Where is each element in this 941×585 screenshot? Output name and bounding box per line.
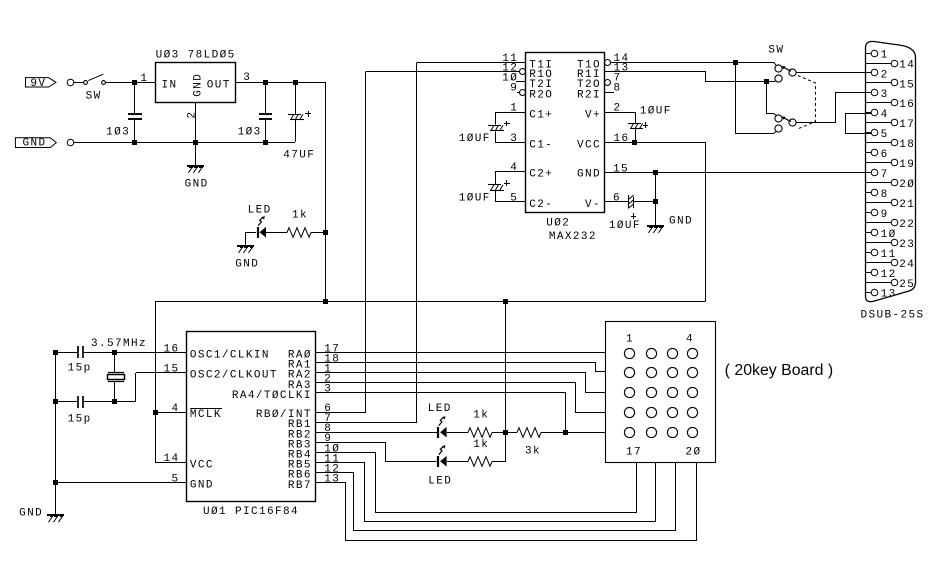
label 1k bbox=[473, 410, 489, 422]
pin 4 label bbox=[172, 403, 180, 415]
pin 11 label bbox=[502, 53, 518, 65]
wire VCC bbox=[605, 143, 706, 302]
svg-text:2: 2 bbox=[187, 111, 199, 119]
wire bbox=[492, 461, 506, 463]
label U01 PIC16F84 bbox=[203, 506, 299, 518]
pin 13 label bbox=[614, 62, 630, 74]
wire bbox=[266, 232, 287, 234]
capacitor 15p upper bbox=[78, 346, 83, 358]
wire VCC drop mid bbox=[505, 302, 507, 432]
svg-text:OSC1/CLKIN: OSC1/CLKIN bbox=[190, 350, 270, 362]
wire bbox=[74, 82, 84, 84]
switch lever upper bbox=[782, 66, 792, 71]
pin 12 label bbox=[324, 464, 340, 476]
junction bbox=[503, 430, 508, 435]
pin 16 label bbox=[614, 133, 630, 145]
resistor 1k D1 bbox=[468, 428, 492, 438]
svg-text:21: 21 bbox=[899, 199, 915, 211]
pin numbers 14-25 bbox=[899, 59, 915, 290]
svg-text:MCLK: MCLK bbox=[190, 409, 222, 421]
pin 16 label bbox=[164, 343, 180, 355]
svg-text:DSUB-25S: DSUB-25S bbox=[861, 309, 925, 321]
svg-text:LED: LED bbox=[428, 403, 452, 415]
bubble T1O bbox=[605, 60, 611, 66]
svg-text:C2+: C2+ bbox=[529, 169, 553, 181]
pin name T1I bbox=[529, 59, 553, 71]
svg-text:14: 14 bbox=[164, 453, 180, 465]
pin name R2O bbox=[529, 89, 553, 101]
junction bbox=[503, 299, 508, 304]
pin name MCLK overlined bbox=[190, 409, 222, 422]
microcontroller U01 PIC16F84 bbox=[187, 332, 316, 502]
svg-text:7: 7 bbox=[881, 169, 889, 181]
pin 9 label bbox=[510, 83, 518, 95]
svg-text:R2O: R2O bbox=[529, 89, 553, 101]
label 1k bbox=[473, 439, 489, 451]
bubble R2O bbox=[520, 90, 526, 96]
pin name OSC2/CLKOUT bbox=[190, 370, 278, 382]
pin 8 label bbox=[324, 423, 332, 435]
wire RA4 bbox=[316, 393, 566, 433]
wire bbox=[447, 461, 468, 463]
led power bbox=[258, 216, 266, 238]
label GND bbox=[235, 259, 259, 271]
wire c6 feed bbox=[735, 132, 776, 134]
svg-text:24: 24 bbox=[899, 259, 915, 271]
label SW bbox=[768, 44, 784, 56]
wire GND pin5 bbox=[56, 482, 186, 484]
pin name RA2 bbox=[288, 370, 312, 382]
junction bbox=[733, 60, 738, 65]
svg-text:6: 6 bbox=[613, 192, 621, 204]
plus sign bbox=[305, 111, 311, 117]
svg-text:4: 4 bbox=[172, 403, 180, 415]
svg-text:11: 11 bbox=[881, 249, 897, 261]
wire left rail to gnd bbox=[55, 352, 57, 483]
led D2 bbox=[438, 445, 447, 467]
pin 4 label bbox=[510, 162, 518, 174]
svg-text:16: 16 bbox=[899, 99, 915, 111]
switch SW power bbox=[84, 74, 155, 84]
label MAX232 bbox=[549, 231, 597, 243]
pin name RB3 bbox=[288, 439, 312, 451]
ground bbox=[187, 166, 204, 173]
svg-text:( 20key Board ): ( 20key Board ) bbox=[725, 362, 834, 379]
svg-text:1k: 1k bbox=[473, 439, 489, 451]
svg-text:1: 1 bbox=[881, 49, 889, 61]
svg-text:4: 4 bbox=[510, 162, 518, 174]
svg-text:1: 1 bbox=[626, 333, 634, 345]
wire MCLK feed bbox=[155, 412, 186, 414]
pin 3 label bbox=[324, 384, 332, 396]
junction bbox=[632, 140, 637, 145]
regulator U03 78LD05 bbox=[156, 63, 236, 103]
switch SW upper pole bbox=[775, 65, 796, 82]
plus sign bbox=[631, 213, 636, 219]
svg-text:9: 9 bbox=[881, 209, 889, 221]
junction bbox=[653, 199, 658, 204]
svg-text:GND: GND bbox=[669, 215, 693, 227]
ground bbox=[237, 246, 254, 253]
svg-text:6: 6 bbox=[881, 149, 889, 161]
label GND bbox=[19, 508, 43, 520]
svg-text:1ØUF: 1ØUF bbox=[459, 193, 491, 205]
ic U02 MAX232 bbox=[526, 53, 605, 213]
svg-text:UØ1 PIC16F84: UØ1 PIC16F84 bbox=[203, 506, 299, 518]
wire sw t1o drop bbox=[735, 62, 737, 133]
pin 1 label bbox=[626, 333, 634, 345]
plus sign bbox=[504, 121, 510, 126]
svg-text:5: 5 bbox=[510, 192, 518, 204]
svg-text:12: 12 bbox=[881, 269, 897, 281]
value 103 bbox=[106, 127, 130, 139]
connector DSUB-25S outline bbox=[866, 41, 916, 301]
wire R1O bbox=[366, 71, 519, 73]
pin name R2I bbox=[577, 89, 601, 101]
dashed gang link bbox=[798, 76, 816, 129]
capacitor C 103 input bbox=[128, 82, 142, 142]
pin name RB4 bbox=[288, 450, 312, 462]
svg-text:GND: GND bbox=[190, 480, 214, 492]
crystal X1 3.57MHz bbox=[108, 352, 125, 402]
capacitor C 47UF polarized bbox=[288, 82, 304, 142]
wire T2I stub bbox=[516, 81, 525, 83]
svg-text:2: 2 bbox=[881, 69, 889, 81]
svg-text:8: 8 bbox=[881, 189, 889, 201]
wire c4 feed bbox=[766, 114, 776, 116]
svg-text:OUT: OUT bbox=[207, 80, 231, 92]
wire VCC feed bbox=[155, 462, 186, 464]
label U02 bbox=[546, 217, 570, 229]
pin name R1I bbox=[577, 69, 601, 81]
svg-text:1ØUF: 1ØUF bbox=[640, 106, 672, 118]
pin label GND rotated bbox=[192, 73, 204, 97]
connector left pins 1-13 bbox=[865, 50, 878, 296]
svg-text:1k: 1k bbox=[292, 210, 308, 222]
svg-text:1Ø3: 1Ø3 bbox=[238, 127, 262, 139]
wire RB4 keypad col1 bbox=[316, 453, 637, 513]
value 47UF bbox=[283, 150, 315, 162]
pin name T2I bbox=[529, 79, 553, 91]
capacitor V+ 10UF bbox=[605, 113, 644, 143]
wire OSC2 up bbox=[136, 373, 187, 403]
svg-text:V+: V+ bbox=[585, 109, 601, 121]
resistor 1k D2 bbox=[468, 457, 492, 467]
svg-text:2Ø: 2Ø bbox=[899, 179, 915, 191]
pin name RA3 bbox=[288, 380, 312, 392]
terminal 9V bbox=[67, 79, 74, 86]
wire bbox=[796, 72, 871, 74]
wire OSC2 lower bbox=[56, 401, 136, 403]
pin 8 label bbox=[614, 83, 622, 95]
svg-text:23: 23 bbox=[899, 239, 915, 251]
pin numbers 1-13 bbox=[881, 49, 897, 300]
junction bbox=[53, 350, 58, 355]
svg-text:SW: SW bbox=[768, 44, 784, 56]
svg-text:5: 5 bbox=[881, 129, 889, 141]
svg-text:15: 15 bbox=[164, 364, 180, 376]
svg-text:C2-: C2- bbox=[529, 199, 553, 211]
switch lever lower bbox=[782, 117, 792, 122]
svg-text:47UF: 47UF bbox=[283, 150, 315, 162]
svg-text:3: 3 bbox=[324, 384, 332, 396]
label LED bbox=[428, 403, 452, 415]
pin name OSC1/CLKIN bbox=[190, 350, 270, 362]
label GND bbox=[185, 178, 209, 190]
pin 10 label bbox=[324, 443, 340, 455]
svg-text:GND: GND bbox=[185, 178, 209, 190]
value 103 bbox=[238, 127, 262, 139]
wire RA2 bbox=[316, 373, 606, 393]
svg-text:C1-: C1- bbox=[529, 140, 553, 152]
resistor 3k bbox=[506, 428, 566, 438]
pin 17 label bbox=[626, 447, 642, 459]
junction bbox=[653, 170, 658, 175]
wire bbox=[195, 142, 197, 165]
pin 17 label bbox=[324, 343, 340, 355]
pin 5 label bbox=[172, 473, 180, 485]
svg-text:RB7: RB7 bbox=[288, 480, 312, 492]
svg-text:MAX232: MAX232 bbox=[549, 231, 597, 243]
pin name RB2 bbox=[288, 429, 312, 441]
wire T1I bbox=[417, 62, 525, 64]
pin name RA4/T0CLKI bbox=[232, 390, 312, 402]
junction bbox=[764, 79, 769, 84]
capacitor C 103 output bbox=[259, 82, 272, 142]
wire vcc to led2 bbox=[505, 432, 507, 461]
pin name RA0 bbox=[288, 350, 312, 362]
pin 9 label bbox=[324, 433, 332, 445]
junction bbox=[132, 140, 137, 145]
switch SW lower pole bbox=[775, 115, 796, 132]
pin name C2- bbox=[529, 199, 553, 211]
pin 11 label bbox=[324, 453, 340, 465]
wire 5V rail bbox=[236, 82, 326, 84]
value 10UF bbox=[609, 220, 641, 232]
wire keypad row5 bbox=[566, 432, 605, 434]
wire RB6 keypad col3 bbox=[316, 463, 676, 531]
svg-text:3.57MHz: 3.57MHz bbox=[91, 338, 147, 350]
resistor 1k power led bbox=[287, 228, 311, 238]
pin 7 label bbox=[614, 72, 622, 84]
svg-text:1ØUF: 1ØUF bbox=[459, 133, 491, 145]
pin name T2O bbox=[577, 79, 601, 91]
wire R2O stub bbox=[517, 92, 519, 94]
svg-text:SW: SW bbox=[86, 90, 102, 102]
pin 2 label bbox=[614, 103, 622, 115]
pin 3 label bbox=[510, 133, 518, 145]
svg-text:15p: 15p bbox=[68, 413, 92, 425]
svg-text:GND: GND bbox=[235, 259, 259, 271]
svg-text:UØ3 78LDØ5: UØ3 78LDØ5 bbox=[156, 49, 236, 61]
wire RB5 keypad col2 bbox=[316, 463, 656, 522]
svg-text:GND: GND bbox=[577, 169, 601, 181]
bubble R1O bbox=[520, 69, 526, 75]
svg-text:V-: V- bbox=[585, 199, 601, 211]
svg-text:GND: GND bbox=[192, 73, 204, 97]
svg-text:1Ø3: 1Ø3 bbox=[106, 127, 130, 139]
wire sw r1i drop bbox=[766, 82, 768, 114]
label 20key Board bbox=[725, 362, 834, 379]
junction bbox=[53, 480, 58, 485]
junction bbox=[153, 410, 158, 415]
junction bbox=[112, 399, 117, 404]
wire bbox=[245, 232, 247, 245]
value 10UF bbox=[459, 133, 491, 145]
pin name C1- bbox=[529, 140, 553, 152]
wire T1O bbox=[611, 62, 776, 65]
label U03 78LD05 bbox=[156, 49, 236, 61]
label 3.57MHz bbox=[91, 338, 147, 350]
wire RB2 to LED bbox=[315, 432, 437, 434]
wire RB7 keypad col4 bbox=[316, 463, 697, 541]
svg-text:1k: 1k bbox=[473, 410, 489, 422]
wire pin4-pin5 jumper bbox=[846, 114, 872, 134]
keypad 20key board bbox=[606, 322, 716, 463]
svg-text:25: 25 bbox=[899, 279, 915, 291]
pin name GND bbox=[577, 169, 601, 181]
svg-text:C1+: C1+ bbox=[529, 109, 553, 121]
label DSUB-25S bbox=[861, 309, 925, 321]
wire 5V vertical bbox=[325, 82, 327, 302]
wire RB3 to LED bbox=[316, 443, 437, 462]
pin name RB1 bbox=[288, 419, 312, 431]
pin name V+ bbox=[585, 109, 601, 121]
svg-text:4: 4 bbox=[686, 333, 694, 345]
value 10UF bbox=[459, 193, 491, 205]
label 1k bbox=[292, 210, 308, 222]
wire bbox=[447, 432, 468, 434]
svg-text:4: 4 bbox=[881, 109, 889, 121]
wire VCC rail bbox=[155, 301, 705, 303]
wire RB0 to R1O bbox=[316, 72, 366, 413]
wire bbox=[311, 232, 326, 234]
pin 1 label U03 bbox=[140, 73, 148, 85]
pin 6 label bbox=[324, 403, 332, 415]
svg-text:15: 15 bbox=[613, 163, 629, 175]
junction bbox=[112, 350, 117, 355]
wire gnd drop bbox=[655, 172, 657, 225]
pin name RB6 bbox=[288, 470, 312, 482]
pin 6 label bbox=[613, 192, 621, 204]
junction bbox=[263, 80, 268, 85]
svg-text:GND: GND bbox=[19, 508, 43, 520]
junction bbox=[263, 140, 268, 145]
wire VCC drop left bbox=[155, 302, 157, 462]
junction bbox=[323, 230, 328, 235]
value 10UF bbox=[640, 106, 672, 118]
pin 4 label bbox=[686, 333, 694, 345]
pin 14 label bbox=[614, 53, 630, 65]
pin 15 label bbox=[164, 364, 180, 376]
pin name RB5 bbox=[288, 460, 312, 472]
pin name VCC bbox=[190, 459, 214, 471]
svg-text:RA4/TØCLKI: RA4/TØCLKI bbox=[232, 390, 312, 402]
node 9V input flag bbox=[26, 78, 56, 90]
wire RA3 bbox=[316, 383, 606, 413]
wire RB1 to T1I bbox=[316, 63, 417, 423]
svg-text:LED: LED bbox=[248, 205, 272, 217]
svg-text:IN: IN bbox=[162, 80, 178, 92]
svg-text:15: 15 bbox=[899, 79, 915, 91]
pin name GND bbox=[190, 480, 214, 492]
svg-text:19: 19 bbox=[899, 159, 915, 171]
wire U03 gnd pin bbox=[195, 102, 197, 142]
led D1 bbox=[438, 416, 447, 438]
svg-text:5: 5 bbox=[172, 473, 180, 485]
label LED bbox=[428, 476, 452, 488]
wire R1I bbox=[605, 72, 777, 82]
pin 15 label bbox=[613, 163, 629, 175]
pin 5 label bbox=[510, 192, 518, 204]
svg-text:VCC: VCC bbox=[190, 459, 214, 471]
junction bbox=[293, 80, 298, 85]
svg-text:18: 18 bbox=[899, 139, 915, 151]
pin name RA1 bbox=[288, 360, 312, 372]
pin 3 label U03 bbox=[243, 72, 251, 84]
node GND input flag bbox=[15, 138, 56, 150]
wire bbox=[55, 483, 57, 514]
pin name RB7 bbox=[288, 480, 312, 492]
wire RA1 bbox=[316, 363, 606, 372]
plus sign bbox=[643, 122, 648, 128]
label 15p bbox=[68, 413, 92, 425]
svg-text:1ØUF: 1ØUF bbox=[609, 220, 641, 232]
capacitor 15p lower bbox=[78, 396, 83, 408]
junction bbox=[563, 430, 568, 435]
pin name C1+ bbox=[529, 109, 553, 121]
keypad switches bbox=[624, 348, 697, 437]
pin name R1O bbox=[529, 69, 553, 81]
pin 2 label bbox=[324, 374, 332, 386]
plus sign bbox=[504, 180, 510, 186]
capacitor V- 10UF bbox=[604, 195, 655, 208]
svg-text:8: 8 bbox=[614, 83, 622, 95]
svg-text:UØ2: UØ2 bbox=[546, 217, 570, 229]
label SW bbox=[86, 90, 102, 102]
svg-text:17: 17 bbox=[626, 447, 642, 459]
label 15p bbox=[68, 363, 92, 375]
pin label OUT bbox=[207, 80, 231, 92]
svg-text:OSC2/CLKOUT: OSC2/CLKOUT bbox=[190, 370, 278, 382]
svg-text:13: 13 bbox=[881, 289, 897, 301]
svg-text:9V: 9V bbox=[30, 78, 46, 90]
pin 1 label bbox=[510, 103, 518, 115]
wire bbox=[246, 232, 256, 234]
svg-text:15p: 15p bbox=[68, 363, 92, 375]
pin 2 label rotated bbox=[187, 111, 199, 119]
svg-text:1Ø: 1Ø bbox=[881, 229, 897, 241]
svg-text:3: 3 bbox=[510, 133, 518, 145]
capacitor C2 10UF bbox=[488, 172, 526, 202]
svg-text:1: 1 bbox=[140, 73, 148, 85]
junction bbox=[323, 299, 328, 304]
junction bbox=[53, 399, 58, 404]
bubble T2O bbox=[605, 80, 611, 86]
pin name T1O bbox=[577, 59, 601, 71]
svg-text:16: 16 bbox=[614, 133, 630, 145]
wire gnd rail bbox=[74, 142, 295, 144]
pin name C2+ bbox=[529, 169, 553, 181]
pin 20 label bbox=[686, 447, 702, 459]
label GND bbox=[669, 215, 693, 227]
pin 14 label bbox=[164, 453, 180, 465]
wire R2I stub bbox=[604, 92, 614, 94]
svg-text:GND: GND bbox=[23, 138, 47, 150]
pin 1 label bbox=[324, 364, 332, 376]
wire GND pin15 bbox=[604, 172, 871, 174]
svg-text:22: 22 bbox=[899, 219, 915, 231]
